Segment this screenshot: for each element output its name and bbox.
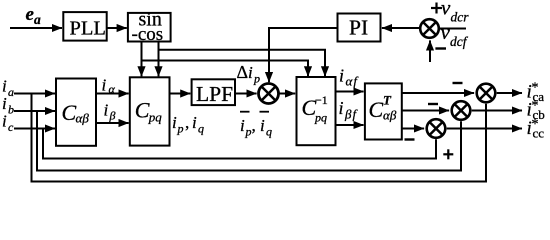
minus sign at summer C3: [453, 82, 463, 84]
svg-text:a: a: [34, 12, 41, 27]
svg-text:,: ,: [185, 113, 189, 132]
svg-text:pq: pq: [314, 111, 327, 125]
svg-text:β: β: [109, 109, 116, 123]
wire cos output down into C_pq: [158, 42, 160, 77]
svg-text:PLL: PLL: [70, 18, 106, 40]
wire summer M to C_pq inverse: [279, 93, 295, 95]
wire i_c into C_ab: [14, 128, 55, 130]
wire sin output down into C_pq: [141, 42, 143, 77]
svg-text:pq: pq: [148, 109, 163, 124]
block LPF: [192, 79, 235, 106]
wire i_beta: [96, 122, 129, 124]
svg-text:v: v: [441, 0, 451, 20]
svg-text:a: a: [8, 85, 14, 99]
label i_alpha: [102, 76, 116, 96]
summer C1: [427, 119, 446, 138]
summer C2: [452, 101, 471, 120]
label i_alpha_f: [339, 66, 359, 89]
svg-text:,: ,: [252, 116, 256, 135]
summer M: [259, 84, 279, 104]
svg-text:i: i: [102, 76, 107, 95]
block C_pq: [130, 77, 170, 145]
svg-text:p: p: [253, 72, 260, 86]
svg-text:i: i: [339, 98, 344, 118]
label e_a: [26, 4, 42, 27]
svg-text:−1: −1: [315, 93, 328, 107]
label i_beta: [104, 101, 116, 123]
wire output i_cb: [472, 110, 522, 112]
wire v_dcf stub up into summer U0: [429, 40, 431, 62]
svg-text:p: p: [177, 122, 184, 136]
summer C3: [477, 84, 496, 103]
svg-text:b: b: [8, 103, 14, 117]
wire output i_cc: [447, 128, 522, 130]
wire i_alpha_f: [336, 91, 364, 93]
svg-text:i: i: [260, 116, 265, 135]
minus sign at summer C1: [405, 138, 415, 140]
block PLL: [63, 12, 106, 40]
wire output i_ca: [497, 92, 522, 94]
svg-text:p: p: [245, 125, 252, 139]
plus sign at summer U0: [431, 3, 442, 14]
svg-text:C: C: [369, 97, 384, 122]
plus sign at summer C1: [443, 149, 453, 159]
wire e_a to PLL: [10, 27, 62, 29]
label i_p,i_q: [172, 113, 204, 136]
svg-text:cc: cc: [533, 125, 545, 140]
block sin-cos: [128, 8, 171, 45]
block C_pq^-1: [297, 77, 336, 145]
wire LPF to summer M: [235, 93, 257, 95]
label i_beta_f: [339, 98, 359, 122]
wire phase a to summer C3: [402, 92, 474, 94]
wire i_c feed-forward to summer C1: [43, 129, 436, 159]
svg-text:i: i: [248, 63, 253, 82]
label i*_cb: [527, 98, 545, 121]
svg-text:LPF: LPF: [196, 82, 233, 106]
block PI: [338, 14, 381, 42]
wire PLL to sin-cos: [107, 27, 127, 29]
wire i_beta_f: [336, 124, 364, 126]
svg-text:PI: PI: [349, 16, 368, 40]
wire C_pq to LPF: [170, 93, 191, 95]
svg-text:q: q: [198, 122, 204, 136]
wire i_b feed-forward to summer C2: [37, 111, 461, 171]
wire i_a into C_ab: [14, 93, 55, 95]
label i*_cc: [527, 117, 545, 140]
svg-text:αβ: αβ: [76, 110, 90, 125]
label v_dcr: [441, 0, 469, 25]
label Delta i_p: [237, 62, 261, 86]
wire i_alpha: [96, 93, 129, 95]
label v_dcf: [441, 20, 469, 49]
svg-text:α: α: [109, 82, 116, 96]
wire cos branch to C_pq^-1: [159, 50, 326, 77]
label i_b: [2, 94, 14, 117]
wire i_b into C_ab: [14, 110, 55, 112]
svg-text:c: c: [8, 120, 14, 134]
svg-text:i: i: [240, 116, 245, 135]
svg-text:v: v: [441, 20, 451, 44]
svg-text:βf: βf: [344, 107, 358, 122]
svg-text:i: i: [192, 113, 197, 132]
minus sign at summer U0: [435, 47, 446, 49]
svg-text:i: i: [2, 77, 7, 96]
svg-text:i: i: [339, 66, 344, 86]
svg-text:i: i: [104, 101, 109, 120]
svg-text:αβ: αβ: [383, 107, 397, 122]
label ip bar, iq bar: [240, 111, 272, 139]
wire i_a feed-forward to summer C3: [32, 94, 487, 182]
svg-text:Δ: Δ: [237, 62, 249, 82]
svg-text:i: i: [172, 113, 177, 132]
label i_a: [2, 77, 14, 100]
wire phase c to summer C1: [402, 128, 424, 130]
svg-text:dcf: dcf: [450, 34, 469, 49]
svg-text:αf: αf: [346, 74, 360, 89]
label i*_ca: [527, 81, 545, 105]
block C_alphabeta^T: [365, 83, 402, 139]
svg-text:i: i: [2, 94, 7, 113]
label i_c: [2, 112, 14, 135]
svg-text:T: T: [383, 93, 392, 108]
svg-text:i: i: [2, 112, 7, 131]
block C_alphabeta: [56, 79, 96, 146]
wire phase b to summer C2: [402, 110, 449, 112]
summer U0 (vdc): [420, 19, 439, 38]
svg-text:C: C: [62, 100, 77, 125]
svg-text:q: q: [266, 125, 272, 139]
minus sign at summer C2: [428, 103, 438, 105]
wire sin branch to C_pq^-1: [142, 61, 309, 77]
svg-text:C: C: [135, 98, 150, 123]
wire PI output down to summer mid: [269, 28, 338, 82]
svg-text:dcr: dcr: [451, 10, 470, 25]
wire summer0 to PI: [382, 27, 419, 29]
wire v_dcr stub: [440, 28, 466, 30]
